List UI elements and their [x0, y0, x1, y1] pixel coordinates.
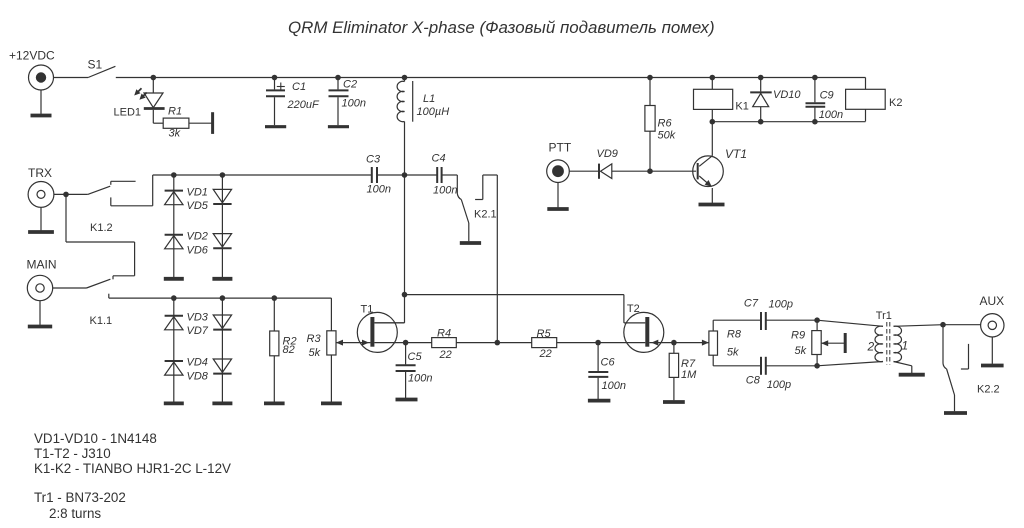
svg-text:C9: C9 [820, 90, 834, 102]
svg-text:100n: 100n [433, 184, 457, 196]
svg-text:K1.1: K1.1 [90, 315, 113, 327]
svg-text:22: 22 [539, 348, 552, 360]
svg-text:K2: K2 [889, 97, 902, 109]
svg-text:T1-T2 - J310: T1-T2 - J310 [34, 446, 111, 461]
svg-text:R3: R3 [307, 333, 322, 345]
svg-text:2: 2 [867, 339, 875, 353]
svg-text:C5: C5 [408, 351, 423, 363]
svg-text:L1: L1 [423, 93, 435, 105]
svg-text:R6: R6 [658, 118, 673, 130]
svg-text:C4: C4 [432, 153, 446, 165]
svg-text:VD7: VD7 [187, 325, 209, 337]
svg-text:5k: 5k [727, 347, 739, 359]
svg-text:2:8 turns: 2:8 turns [49, 506, 101, 521]
svg-text:C3: C3 [366, 153, 381, 165]
svg-text:100p: 100p [769, 298, 793, 310]
svg-text:R9: R9 [791, 330, 805, 342]
svg-text:100n: 100n [408, 373, 432, 385]
svg-text:T2: T2 [627, 303, 640, 315]
svg-text:S1: S1 [88, 58, 103, 72]
svg-text:MAIN: MAIN [27, 258, 57, 272]
svg-text:Tr1 - BN73-202: Tr1 - BN73-202 [34, 490, 126, 505]
svg-text:VD6: VD6 [187, 245, 209, 257]
svg-text:VD1: VD1 [187, 187, 208, 199]
svg-text:100n: 100n [367, 184, 391, 196]
svg-text:100µH: 100µH [417, 106, 450, 118]
svg-text:R4: R4 [437, 328, 451, 340]
svg-text:VT1: VT1 [725, 147, 747, 161]
svg-text:VD10: VD10 [773, 89, 801, 101]
svg-text:C2: C2 [343, 79, 357, 91]
svg-text:100p: 100p [767, 379, 791, 391]
svg-text:K1: K1 [735, 100, 748, 112]
svg-text:VD1-VD10 - 1N4148: VD1-VD10 - 1N4148 [34, 431, 157, 446]
svg-text:VD8: VD8 [187, 371, 209, 383]
svg-text:R8: R8 [727, 329, 742, 341]
svg-text:50k: 50k [658, 129, 676, 141]
svg-text:5k: 5k [795, 345, 807, 357]
svg-text:K1.2: K1.2 [90, 222, 113, 234]
svg-text:100n: 100n [602, 380, 626, 392]
svg-text:K2.1: K2.1 [474, 208, 497, 220]
svg-text:100n: 100n [342, 98, 366, 110]
svg-text:PTT: PTT [549, 141, 572, 155]
svg-text:QRM Eliminator X-phase (Фазовы: QRM Eliminator X-phase (Фазовый подавите… [288, 18, 715, 37]
svg-text:LED1: LED1 [114, 106, 142, 118]
svg-text:VD3: VD3 [187, 312, 209, 324]
svg-text:TRX: TRX [28, 166, 52, 180]
svg-text:1: 1 [902, 339, 909, 353]
svg-text:C7: C7 [744, 297, 759, 309]
svg-text:100n: 100n [819, 109, 843, 121]
svg-text:3k: 3k [169, 127, 181, 139]
svg-text:Tr1: Tr1 [876, 310, 892, 322]
svg-text:K2.2: K2.2 [977, 384, 1000, 396]
svg-text:VD4: VD4 [187, 357, 208, 369]
svg-text:K1-K2 - TIANBO HJR1-2C L-12V: K1-K2 - TIANBO HJR1-2C L-12V [34, 461, 231, 476]
svg-text:C6: C6 [601, 356, 616, 368]
svg-text:AUX: AUX [980, 294, 1005, 308]
svg-text:R5: R5 [537, 328, 552, 340]
svg-text:22: 22 [439, 349, 452, 361]
svg-text:VD9: VD9 [597, 148, 618, 160]
svg-text:VD5: VD5 [187, 200, 209, 212]
svg-text:220uF: 220uF [287, 99, 320, 111]
svg-text:82: 82 [283, 344, 295, 356]
svg-text:1M: 1M [681, 369, 697, 381]
svg-text:VD2: VD2 [187, 231, 208, 243]
svg-text:T1: T1 [361, 304, 374, 316]
svg-text:+12VDC: +12VDC [9, 49, 55, 63]
svg-text:C1: C1 [292, 81, 306, 93]
svg-text:C8: C8 [746, 375, 761, 387]
svg-text:R1: R1 [168, 106, 182, 118]
svg-text:5k: 5k [309, 347, 321, 359]
